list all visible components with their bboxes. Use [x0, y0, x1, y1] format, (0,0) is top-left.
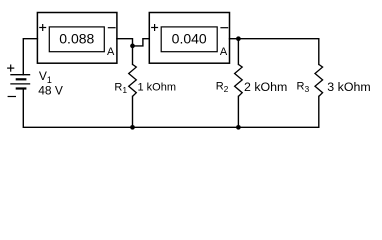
svg-text:48 V: 48 V: [38, 83, 63, 97]
svg-text:A: A: [220, 46, 228, 58]
svg-text:2 kOhm: 2 kOhm: [244, 80, 287, 94]
wire R1 top lead: [132, 46, 134, 65]
svg-text:0.040: 0.040: [172, 30, 207, 46]
wire U1 right to node A jog: [117, 39, 133, 46]
battery minus sign: [8, 96, 16, 98]
resistor R2: [235, 64, 243, 96]
node A junction dot: [130, 44, 135, 49]
ammeter U1 plus: [39, 24, 46, 31]
ammeter U2 minus: [220, 27, 228, 29]
svg-text:0.088: 0.088: [59, 30, 94, 46]
wire node A to ammeter U2: [133, 39, 150, 46]
wire U2 right to node B: [230, 38, 239, 40]
wire battery top to ammeter U1: [23, 39, 37, 75]
battery V1: [10, 75, 30, 89]
ammeter U1 display box: [49, 27, 104, 52]
resistor R3: [315, 64, 323, 96]
wire R2 bottom lead: [237, 96, 239, 127]
wire R2 top lead: [237, 39, 239, 65]
ammeter U2 plus: [151, 24, 158, 31]
wire R3 bottom lead: [318, 96, 320, 127]
ammeter U2 outer box: [149, 13, 229, 64]
wire R1 bottom lead: [132, 96, 134, 127]
node B junction dot: [236, 36, 241, 41]
ammeter U2 display box: [161, 27, 217, 52]
wire node B to R3 top: [238, 39, 318, 65]
svg-text:A: A: [107, 46, 115, 58]
svg-text:1 kOhm: 1 kOhm: [138, 81, 177, 93]
battery plus sign: [7, 65, 14, 72]
ammeter U1 outer box: [37, 13, 117, 64]
bottom node dot R1: [130, 125, 135, 130]
wire bottom rail: [23, 89, 319, 128]
ammeter U1 minus: [108, 27, 116, 29]
bottom node dot R2: [236, 125, 241, 130]
resistor R1: [129, 64, 137, 96]
svg-text:3 kOhm: 3 kOhm: [327, 80, 370, 94]
